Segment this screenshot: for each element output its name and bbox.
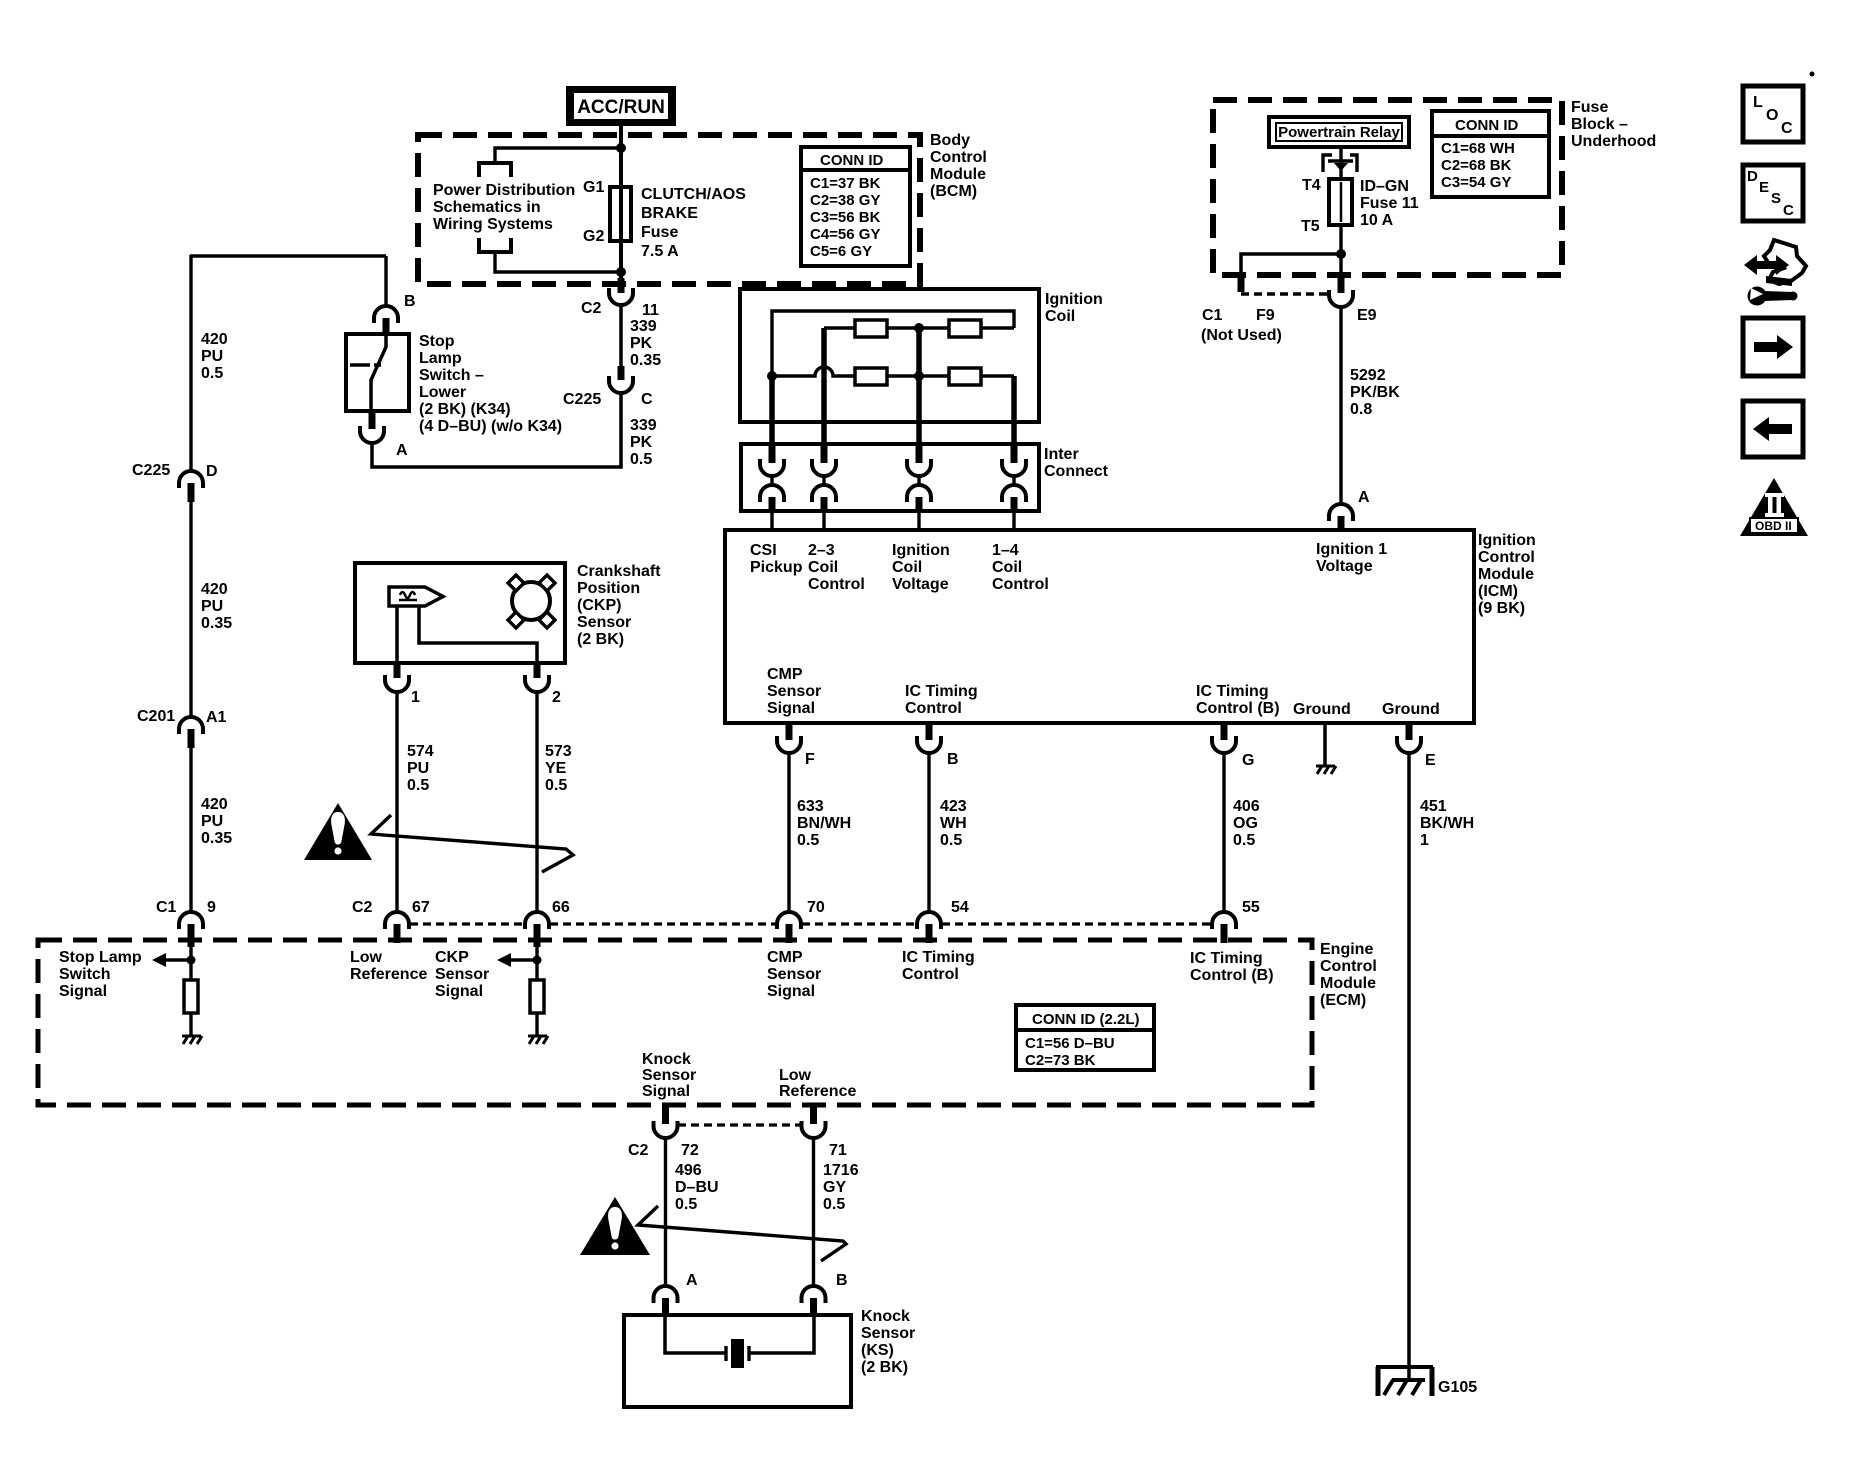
wire 574 PU 0.5 [395, 692, 398, 912]
svg-text:Ground: Ground [1382, 701, 1440, 718]
svg-text:Power Distribution: Power Distribution [433, 182, 575, 199]
wire: ACC/RUN branch horizontal to stop lamp switch [190, 254, 386, 257]
svg-text:ID–GN: ID–GN [1360, 178, 1409, 195]
svg-text:C5=6 GY: C5=6 GY [810, 243, 872, 260]
wire: coil row 2 with hop [772, 367, 1014, 376]
wire: main feed from ACC/RUN through fuse [619, 122, 623, 278]
connector knock B [802, 1286, 826, 1303]
svg-text:Control: Control [902, 966, 959, 983]
relay output terminal [1323, 155, 1332, 172]
svg-text:0.5: 0.5 [797, 832, 819, 849]
svg-text:Fuse: Fuse [1571, 99, 1608, 116]
connector ECM pin 66 [525, 912, 549, 929]
svg-text:T4: T4 [1302, 177, 1321, 194]
CKP sensor box [355, 563, 565, 663]
svg-text:C3=56 BK: C3=56 BK [810, 209, 881, 226]
svg-text:Control: Control [1478, 549, 1535, 566]
wire: branch down to stop lamp switch B [384, 256, 387, 308]
svg-text:Control: Control [992, 576, 1049, 593]
svg-text:D: D [1747, 168, 1758, 185]
svg-text:C4=56 GY: C4=56 GY [810, 226, 880, 243]
svg-text:O: O [1766, 107, 1778, 124]
svg-text:66: 66 [552, 899, 570, 916]
svg-text:PU: PU [201, 348, 223, 365]
svg-text:G1: G1 [583, 179, 604, 196]
svg-text:0.35: 0.35 [201, 615, 232, 632]
wire 420 PU 0.35 to C201 [189, 502, 192, 718]
CONN ID table (BCM) [801, 147, 910, 266]
svg-text:BN/WH: BN/WH [797, 815, 851, 832]
wire: left vertical 420 PU down to C225 D [189, 255, 192, 472]
wire fuse to junction [1339, 225, 1342, 278]
svg-text:T5: T5 [1301, 218, 1320, 235]
svg-text:C: C [1781, 120, 1793, 137]
svg-text:Ignition 1: Ignition 1 [1316, 541, 1387, 558]
svg-text:2–3: 2–3 [808, 542, 835, 559]
svg-text:Switch –: Switch – [419, 367, 484, 384]
svg-text:Sensor: Sensor [767, 683, 821, 700]
svg-text:L: L [1753, 94, 1763, 111]
svg-text:Signal: Signal [767, 983, 815, 1000]
svg-text:C2=68 BK: C2=68 BK [1441, 157, 1512, 174]
ECM dashed box [38, 940, 1312, 1105]
svg-text:A: A [396, 442, 408, 459]
svg-text:PU: PU [201, 598, 223, 615]
svg-text:0.5: 0.5 [940, 832, 962, 849]
svg-text:Module: Module [930, 166, 986, 183]
svg-text:E: E [1425, 752, 1436, 769]
svg-text:E9: E9 [1357, 307, 1377, 324]
CONN ID (2.2L) table [1016, 1005, 1154, 1070]
svg-text:G105: G105 [1438, 1379, 1477, 1396]
wire 339 PK 0.35 [619, 305, 623, 366]
svg-text:C225: C225 [132, 462, 170, 479]
svg-text:Coil: Coil [808, 559, 838, 576]
svg-text:Voltage: Voltage [1316, 558, 1373, 575]
svg-text:OBD II: OBD II [1755, 519, 1792, 533]
svg-text:(4 D–BU) (w/o K34): (4 D–BU) (w/o K34) [419, 418, 562, 435]
CONN ID table (fuse block) [1432, 111, 1549, 197]
ICM pin B [917, 725, 959, 912]
svg-text:IC Timing: IC Timing [1190, 950, 1263, 967]
svg-text:D: D [206, 463, 218, 480]
svg-text:573: 573 [545, 743, 572, 760]
svg-text:0.35: 0.35 [201, 830, 232, 847]
svg-text:574: 574 [407, 743, 434, 760]
connector A (stop lamp switch) [369, 411, 376, 429]
svg-text:C1=37 BK: C1=37 BK [810, 175, 881, 192]
svg-text:Stop: Stop [419, 333, 455, 350]
svg-text:Lower: Lower [419, 384, 466, 401]
wire relay to fuse [1339, 147, 1342, 180]
warning triangle (knock circuit) [580, 1197, 650, 1255]
node: coil row2 left junction [767, 371, 777, 381]
svg-text:Reference: Reference [779, 1083, 856, 1100]
arrow: stop lamp switch signal [165, 958, 191, 962]
svg-text:5292: 5292 [1350, 367, 1386, 384]
svg-text:C1=68 WH: C1=68 WH [1441, 140, 1515, 157]
warning triangle (CKP circuit) [304, 803, 372, 860]
connector C225 D [179, 471, 203, 488]
wire 1716 GY 0.5 [812, 1138, 815, 1287]
svg-text:71: 71 [829, 1142, 847, 1159]
svg-text:G2: G2 [583, 228, 604, 245]
resistor: CKP pulldown [530, 980, 544, 1013]
BCM dashed box [418, 135, 920, 284]
svg-text:Connect: Connect [1044, 463, 1109, 480]
svg-text:S: S [1771, 190, 1781, 207]
svg-text:Coil: Coil [892, 559, 922, 576]
svg-text:Control: Control [930, 149, 987, 166]
svg-text:70: 70 [807, 899, 825, 916]
icon: period dot [1810, 72, 1815, 77]
svg-text:55: 55 [1242, 899, 1260, 916]
resistor: stop lamp pulldown [184, 980, 198, 1013]
wire: pin2 riser [821, 328, 827, 444]
svg-text:0.8: 0.8 [1350, 401, 1372, 418]
svg-text:C225: C225 [563, 391, 601, 408]
icon: LOC box [1743, 86, 1803, 142]
icon: left arrow box [1743, 401, 1803, 457]
wire 573 YE 0.5 [535, 692, 538, 912]
coil primary R2 [949, 320, 981, 337]
svg-text:C2=38 GY: C2=38 GY [810, 192, 880, 209]
svg-text:BK/WH: BK/WH [1420, 815, 1474, 832]
svg-text:2: 2 [552, 689, 561, 706]
svg-text:BRAKE: BRAKE [641, 205, 698, 222]
svg-text:423: 423 [940, 798, 967, 815]
svg-text:Body: Body [930, 132, 970, 149]
connector ECM pin 67 C2 [385, 912, 409, 929]
CKP reluctor wheel [512, 582, 550, 620]
icon: service tool (arrow + wrench) [1744, 240, 1806, 306]
connector B (stop lamp switch) [374, 306, 398, 323]
svg-text:Low: Low [779, 1067, 812, 1084]
svg-text:496: 496 [675, 1162, 702, 1179]
bracket: power distribution top [479, 163, 511, 177]
wire: power distribution loop top [495, 148, 621, 163]
svg-text:A: A [686, 1272, 698, 1289]
svg-text:7.5 A: 7.5 A [641, 243, 679, 260]
svg-text:Low: Low [350, 949, 383, 966]
svg-text:(BCM): (BCM) [930, 183, 977, 200]
svg-text:PU: PU [407, 760, 429, 777]
connector ECM pin 55 [1212, 912, 1236, 929]
ground: stop lamp [182, 1036, 202, 1044]
svg-text:E: E [1759, 179, 1769, 196]
wire resistor to ground [189, 1013, 192, 1036]
svg-text:ACC/RUN: ACC/RUN [577, 97, 665, 118]
svg-text:Control (B): Control (B) [1190, 967, 1274, 984]
fuse 11 [1329, 179, 1352, 225]
svg-text:CONN ID: CONN ID [820, 152, 884, 169]
node: coil row1 junction [914, 323, 924, 333]
svg-text:Reference: Reference [350, 966, 427, 983]
stop lamp switch box [346, 334, 409, 411]
connector ECM pin 9 C1 [179, 912, 203, 929]
svg-text:Module: Module [1478, 566, 1534, 583]
svg-text:F: F [805, 751, 815, 768]
svg-text:Signal: Signal [435, 983, 483, 1000]
svg-text:PK: PK [630, 434, 653, 451]
svg-text:A: A [1358, 489, 1370, 506]
svg-text:(ICM): (ICM) [1478, 583, 1518, 600]
svg-text:D–BU: D–BU [675, 1179, 719, 1196]
wire 5292 PK/BK 0.8 [1339, 307, 1342, 505]
svg-text:C2: C2 [352, 899, 373, 916]
svg-text:CLUTCH/AOS: CLUTCH/AOS [641, 186, 746, 203]
node: junction bottom [616, 267, 626, 277]
svg-text:(KS): (KS) [861, 1342, 894, 1359]
svg-text:B: B [947, 751, 959, 768]
svg-text:451: 451 [1420, 798, 1447, 815]
svg-text:Underhood: Underhood [1571, 133, 1656, 150]
knock sensor box [624, 1315, 851, 1407]
connector C2 (BCM output) [618, 278, 625, 293]
svg-text:67: 67 [412, 899, 430, 916]
svg-text:Switch: Switch [59, 966, 111, 983]
svg-text:Control (B): Control (B) [1196, 700, 1280, 717]
interconnect box [741, 444, 1039, 511]
svg-text:Pickup: Pickup [750, 559, 803, 576]
svg-text:1: 1 [411, 689, 420, 706]
svg-text:Control: Control [1320, 958, 1377, 975]
svg-text:Module: Module [1320, 975, 1376, 992]
node: CKP signal junction [533, 956, 542, 965]
wire: coil inner top loop [772, 311, 1014, 376]
svg-text:10 A: 10 A [1360, 212, 1394, 229]
svg-text:Signal: Signal [59, 983, 107, 1000]
svg-text:Voltage: Voltage [892, 576, 949, 593]
svg-text:Wiring Systems: Wiring Systems [433, 216, 553, 233]
connector C201 A1 [179, 717, 203, 734]
svg-text:B: B [836, 1272, 848, 1289]
svg-text:Sensor: Sensor [642, 1067, 696, 1084]
wire: coil row 1 [824, 326, 1014, 329]
svg-text:1: 1 [1420, 832, 1429, 849]
ignition coil box [740, 289, 1039, 422]
svg-text:Position: Position [577, 580, 640, 597]
icon: right arrow box [1743, 318, 1803, 376]
dotted line F9 to E9 [1241, 292, 1329, 296]
svg-text:Ignition: Ignition [892, 542, 950, 559]
svg-text:1716: 1716 [823, 1162, 859, 1179]
CKP pickup element [389, 587, 443, 606]
node: stop lamp signal junction [187, 956, 196, 965]
connector CKP pin 2 [534, 663, 541, 678]
svg-text:Crankshaft: Crankshaft [577, 563, 661, 580]
svg-text:Sensor: Sensor [767, 966, 821, 983]
svg-text:Sensor: Sensor [861, 1325, 915, 1342]
svg-text:A1: A1 [206, 709, 227, 726]
svg-text:0.5: 0.5 [545, 777, 567, 794]
coil secondary R4 [949, 368, 981, 385]
svg-text:OG: OG [1233, 815, 1258, 832]
svg-text:0.5: 0.5 [630, 451, 652, 468]
Powertrain Relay box [1269, 117, 1409, 147]
svg-text:G: G [1242, 752, 1254, 769]
connector knock A [654, 1286, 678, 1303]
wire: pin1 drop [769, 376, 775, 444]
svg-text:CONN ID: CONN ID [1455, 117, 1519, 134]
wire inside ECM from pin 9 [189, 947, 192, 980]
interconnect pin 4 [1002, 444, 1026, 530]
connector ECM pin 70 [777, 912, 801, 929]
svg-text:Ground: Ground [1293, 701, 1351, 718]
connector ECM pin 54 [917, 912, 941, 929]
svg-text:C1=56 D–BU: C1=56 D–BU [1025, 1035, 1115, 1052]
fuse: CLUTCH/AOS BRAKE [610, 187, 631, 241]
svg-text:406: 406 [1233, 798, 1260, 815]
interconnect pin 3 [907, 444, 931, 530]
ICM pin E [1397, 725, 1436, 1380]
connector C225 C [618, 366, 625, 380]
arrow: CKP sensor signal [511, 958, 537, 962]
svg-text:(2 BK): (2 BK) [861, 1359, 908, 1376]
connector ECM pin 71 [810, 1105, 817, 1124]
svg-text:(Not Used): (Not Used) [1201, 327, 1282, 344]
svg-text:C1: C1 [1202, 307, 1223, 324]
dotted harness line across ECM pins [410, 922, 1211, 925]
svg-text:F9: F9 [1256, 307, 1275, 324]
svg-text:11: 11 [642, 302, 659, 319]
svg-text:CMP: CMP [767, 949, 803, 966]
connector ECM pin 72 C2 [662, 1105, 669, 1124]
svg-text:B: B [404, 293, 416, 310]
svg-text:9: 9 [207, 899, 216, 916]
svg-text:Control: Control [808, 576, 865, 593]
svg-text:YE: YE [545, 760, 567, 777]
bracket: power distribution bottom [479, 238, 511, 252]
svg-text:GY: GY [823, 1179, 846, 1196]
svg-text:Ignition: Ignition [1045, 291, 1103, 308]
wire: CKP pin2 internal [419, 606, 537, 663]
svg-text:72: 72 [681, 1142, 699, 1159]
svg-text:Engine: Engine [1320, 941, 1373, 958]
svg-text:CKP: CKP [435, 949, 469, 966]
svg-text:C2: C2 [628, 1142, 649, 1159]
svg-text:0.5: 0.5 [201, 365, 223, 382]
switch blade inside [384, 334, 388, 348]
svg-text:C3=54 GY: C3=54 GY [1441, 174, 1511, 191]
connector A at ICM top [1329, 504, 1353, 521]
dotted pair line knock sensor [678, 1123, 801, 1126]
ICM chassis ground pin [1323, 725, 1327, 766]
svg-text:Inter: Inter [1044, 446, 1079, 463]
svg-text:Coil: Coil [992, 559, 1022, 576]
svg-text:0.5: 0.5 [1233, 832, 1255, 849]
svg-text:Block –: Block – [1571, 116, 1628, 133]
svg-text:Signal: Signal [642, 1083, 690, 1100]
node: junction top [616, 143, 626, 153]
interconnect pin 1 [760, 444, 784, 530]
svg-text:IC Timing: IC Timing [1196, 683, 1269, 700]
wire: CKP pin1 internal [395, 606, 399, 663]
fuse block underhood dashed box [1213, 100, 1562, 275]
coil primary R1 [855, 320, 887, 337]
svg-text:Knock: Knock [642, 1051, 691, 1068]
svg-text:Signal: Signal [767, 700, 815, 717]
svg-text:C2=73 BK: C2=73 BK [1025, 1052, 1096, 1069]
wire: power distribution loop bottom [495, 252, 621, 272]
short-to warning line (knock) [638, 1206, 846, 1261]
ground G105 [1376, 1367, 1433, 1396]
svg-text:(CKP): (CKP) [577, 597, 621, 614]
svg-text:C: C [641, 391, 653, 408]
svg-text:Ignition: Ignition [1478, 532, 1536, 549]
ICM box [725, 530, 1474, 723]
svg-text:WH: WH [940, 815, 967, 832]
svg-text:1–4: 1–4 [992, 542, 1019, 559]
icon: DESC box [1743, 165, 1803, 221]
svg-text:420: 420 [201, 331, 228, 348]
svg-text:Sensor: Sensor [435, 966, 489, 983]
svg-text:Fuse 11: Fuse 11 [1360, 195, 1419, 212]
wire inside ECM from pin 66 [535, 947, 538, 980]
svg-text:Knock: Knock [861, 1308, 910, 1325]
wire 420 PU 0.35 to ECM pin 9 [189, 748, 192, 912]
svg-text:Coil: Coil [1045, 308, 1075, 325]
node: fuse output junction [1336, 249, 1346, 259]
svg-text:CONN ID (2.2L): CONN ID (2.2L) [1032, 1011, 1140, 1028]
svg-text:Lamp: Lamp [419, 350, 462, 367]
connector CKP pin 1 [394, 663, 401, 678]
svg-text:Fuse: Fuse [641, 224, 678, 241]
svg-text:CSI: CSI [750, 542, 777, 559]
svg-text:PK/BK: PK/BK [1350, 384, 1400, 401]
knock sensor element [665, 1315, 726, 1353]
ICM pin F [777, 725, 815, 912]
svg-text:(9 BK): (9 BK) [1478, 600, 1525, 617]
svg-text:PK: PK [630, 335, 653, 352]
ground: CKP [528, 1036, 548, 1044]
ACC/RUN box [566, 86, 676, 126]
coil secondary R3 [855, 368, 887, 385]
svg-text:339: 339 [630, 417, 657, 434]
svg-text:(2 BK) (K34): (2 BK) (K34) [419, 401, 511, 418]
short-to warning line (CKP) [371, 815, 573, 872]
svg-text:Stop Lamp: Stop Lamp [59, 949, 142, 966]
svg-text:(2 BK): (2 BK) [577, 631, 624, 648]
svg-text:Control: Control [905, 700, 962, 717]
svg-text:(ECM): (ECM) [1320, 992, 1366, 1009]
node: coil row2 center junction [914, 371, 924, 381]
svg-text:CMP: CMP [767, 666, 803, 683]
svg-text:IC Timing: IC Timing [905, 683, 978, 700]
svg-text:C201: C201 [137, 708, 175, 725]
wire: F9 branch [1241, 254, 1341, 277]
svg-text:PU: PU [201, 813, 223, 830]
icon: OBD II triangle [1740, 478, 1808, 536]
wire: switch A down and right to C225 C [372, 392, 621, 467]
svg-text:Sensor: Sensor [577, 614, 631, 631]
svg-text:IC Timing: IC Timing [902, 949, 975, 966]
svg-text:0.5: 0.5 [823, 1196, 845, 1213]
interconnect pin 2 [812, 444, 836, 530]
wire: center drop [916, 328, 922, 444]
svg-text:0.5: 0.5 [407, 777, 429, 794]
svg-text:Powertrain Relay: Powertrain Relay [1278, 124, 1400, 141]
svg-text:C1: C1 [156, 899, 177, 916]
svg-text:420: 420 [201, 796, 228, 813]
wire: pin4 drop [1011, 376, 1017, 444]
ICM pin G [1212, 725, 1254, 912]
svg-text:0.5: 0.5 [675, 1196, 697, 1213]
connector E9 [1338, 276, 1345, 293]
svg-text:0.35: 0.35 [630, 352, 661, 369]
svg-text:420: 420 [201, 581, 228, 598]
svg-text:C: C [1783, 202, 1794, 219]
